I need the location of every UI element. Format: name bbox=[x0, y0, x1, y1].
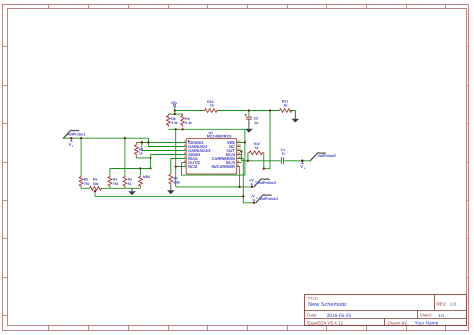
wire Vs horizontal bbox=[63, 137, 148, 139]
svg-text:NC/2: NC/2 bbox=[188, 164, 198, 169]
wire pin3 row bbox=[142, 143, 186, 151]
net flag -Vo bbox=[251, 194, 259, 203]
U1 left pin stubs bbox=[182, 143, 186, 167]
junction pin1-row bbox=[147, 141, 149, 143]
svg-text:o: o bbox=[256, 196, 258, 200]
resistor R1 bbox=[134, 143, 143, 158]
svg-text:MR2: MR2 bbox=[143, 175, 150, 179]
junction Vs-R2 bbox=[124, 137, 126, 139]
net flag +Vo bbox=[249, 178, 257, 187]
wire INCARRIER down to +Vo line bbox=[239, 167, 241, 187]
wire R6 tap run to right bbox=[95, 195, 243, 197]
wire NC2 row bbox=[176, 166, 186, 168]
wire OUT pin down to output line bbox=[240, 151, 242, 161]
ground (R7) bbox=[167, 185, 175, 195]
net flag Vs bbox=[69, 138, 74, 148]
svg-text:Date:: Date: bbox=[307, 313, 317, 318]
wire Vs corner to pin1 row bbox=[148, 138, 186, 146]
resistor R2 bbox=[123, 175, 132, 188]
svg-text:1/1: 1/1 bbox=[438, 313, 445, 318]
svg-text:Sheet:: Sheet: bbox=[420, 313, 432, 318]
junction Vs-R5 bbox=[80, 137, 82, 139]
svg-text:C2: C2 bbox=[254, 117, 259, 121]
svg-text:VolProbe3: VolProbe3 bbox=[257, 181, 276, 185]
resistor R11 bbox=[280, 100, 293, 113]
probe VolProbe1 bbox=[63, 130, 85, 138]
svg-text:VolProbe1: VolProbe1 bbox=[67, 133, 86, 137]
wire R11 to ground bbox=[292, 111, 295, 114]
svg-text:IN/CARRIER: IN/CARRIER bbox=[212, 164, 235, 169]
svg-text:MC1496DR2G: MC1496DR2G bbox=[207, 134, 232, 138]
U1 left pin labels bbox=[188, 140, 211, 169]
wire +12V rail bbox=[175, 110, 295, 112]
wire BIAS to R7 bbox=[171, 159, 186, 174]
junction rail-R10branch bbox=[269, 109, 271, 111]
svg-text:51: 51 bbox=[255, 146, 259, 150]
wire output line bbox=[241, 160, 310, 162]
wire Vs down to R5 bbox=[80, 138, 82, 175]
U1 left pin numbers bbox=[184, 139, 186, 167]
wire bottom bus R5-R6-R4-R2-MR2 bbox=[81, 187, 140, 189]
power flag 12v bbox=[171, 101, 178, 111]
resistor R9 bbox=[181, 114, 192, 126]
wire R1 bottom to pin4 riser bbox=[136, 157, 150, 159]
wire R8R9 top bus bbox=[168, 113, 182, 115]
resistor R12 bbox=[205, 100, 218, 113]
U1 right pin labels bbox=[212, 140, 236, 169]
junction VEE stub bbox=[244, 141, 246, 143]
wire R8R9 bottom bus to right bbox=[168, 128, 245, 130]
junction tops bbox=[174, 113, 176, 115]
junction Vs-flag bbox=[70, 137, 72, 139]
wire left vert to +Vo line bbox=[175, 129, 177, 187]
junction NC2 row bbox=[175, 165, 177, 167]
junction +Vo probe bbox=[251, 186, 253, 188]
wire lower bus to R4 bbox=[109, 169, 111, 176]
wire right loop down bbox=[182, 129, 245, 175]
svg-text:1k: 1k bbox=[139, 152, 143, 156]
wire +Vo line bbox=[176, 186, 252, 188]
junction pin3 branch bbox=[141, 141, 143, 143]
junction R10-rail branch bbox=[263, 168, 265, 170]
title block bbox=[305, 295, 467, 326]
svg-text:3.3k: 3.3k bbox=[185, 121, 192, 125]
svg-text:1k: 1k bbox=[210, 104, 214, 108]
junction -Vo probe bbox=[253, 202, 255, 204]
svg-text:TITLE:: TITLE: bbox=[307, 297, 318, 301]
wire R10 left leg bbox=[247, 153, 249, 161]
wire R10 right leg bbox=[263, 153, 265, 169]
svg-text:1u: 1u bbox=[254, 121, 258, 125]
svg-text:Your Name: Your Name bbox=[415, 320, 439, 326]
wire CARRIERIN down to -Vo line bbox=[243, 159, 254, 203]
resistor R5 bbox=[79, 175, 89, 188]
svg-text:6.8k: 6.8k bbox=[174, 181, 181, 185]
junction OUT stub bbox=[240, 150, 242, 152]
probe VolProbe4 bbox=[256, 195, 279, 203]
wire 12v stem to R8R9 tops bbox=[174, 111, 176, 115]
svg-text:3.3k: 3.3k bbox=[171, 121, 178, 125]
wire lower bus bbox=[110, 168, 151, 170]
svg-text:VolProbe4: VolProbe4 bbox=[259, 197, 278, 201]
svg-text:1.0: 1.0 bbox=[450, 302, 457, 307]
resistor R7 bbox=[169, 173, 180, 184]
svg-text:REV:: REV: bbox=[436, 302, 446, 307]
svg-text:1u: 1u bbox=[281, 151, 285, 155]
op-amp U1 MC1496 bbox=[186, 131, 237, 174]
svg-text:50k: 50k bbox=[93, 182, 99, 186]
probe VolProbe2 bbox=[310, 153, 336, 161]
junction R1-riser bbox=[150, 157, 152, 159]
capacitor C1 bbox=[281, 148, 286, 164]
svg-text:1k: 1k bbox=[283, 104, 287, 108]
junction rail-flag bbox=[174, 109, 176, 111]
wire pin1 row bbox=[136, 142, 186, 144]
junction rail-C2 bbox=[248, 109, 250, 111]
wire pin4 riser bbox=[151, 155, 187, 169]
junction incarrier-+Vo bbox=[239, 186, 241, 188]
junction dots overlay bbox=[70, 109, 303, 203]
junction bottombus-leftvert bbox=[175, 128, 177, 130]
resistor R4 bbox=[108, 175, 118, 188]
svg-text:750: 750 bbox=[113, 182, 119, 186]
probe VolProbe3 bbox=[254, 179, 276, 187]
svg-text:-V: -V bbox=[251, 194, 255, 199]
junction bus-MR2 bbox=[139, 167, 141, 169]
junction bottombus-R9 bbox=[182, 128, 184, 130]
pot R6 tap bbox=[94, 190, 96, 196]
net flag Vo bbox=[300, 161, 305, 170]
svg-text:Drawn By:: Drawn By: bbox=[388, 320, 408, 325]
svg-text:VolProbe2: VolProbe2 bbox=[317, 154, 336, 158]
resistor MR2 bbox=[139, 175, 151, 188]
capacitor C2 bbox=[244, 111, 258, 126]
junction output node bbox=[301, 160, 304, 163]
wire Vs down to R2 bbox=[124, 138, 126, 175]
ground (R11) bbox=[292, 113, 300, 123]
wire lower bus to MR2 bbox=[139, 169, 141, 176]
ground (R2 MR2) bbox=[128, 188, 136, 195]
junction R10-output bbox=[247, 160, 249, 162]
svg-text:51: 51 bbox=[128, 182, 132, 186]
junction tap wire meets carrier riser bbox=[242, 195, 244, 197]
ground (C2) bbox=[245, 119, 253, 133]
svg-text:750: 750 bbox=[84, 182, 90, 186]
U1 right pin stubs bbox=[237, 143, 245, 167]
svg-text:o: o bbox=[304, 166, 306, 170]
resistor R8 bbox=[167, 114, 178, 126]
svg-text:EasyEDA V5.4.12: EasyEDA V5.4.12 bbox=[307, 320, 343, 325]
wire rail branch down to R10 bbox=[264, 111, 270, 169]
svg-text:+V: +V bbox=[249, 178, 254, 183]
U1 right pin numbers bbox=[238, 139, 242, 167]
svg-text:12v: 12v bbox=[171, 101, 178, 105]
resistor R10 bbox=[248, 142, 264, 155]
svg-text:2018-05-25: 2018-05-25 bbox=[327, 313, 352, 319]
potentiometer R6 bbox=[89, 178, 101, 191]
svg-text:New Schematic: New Schematic bbox=[308, 301, 347, 308]
